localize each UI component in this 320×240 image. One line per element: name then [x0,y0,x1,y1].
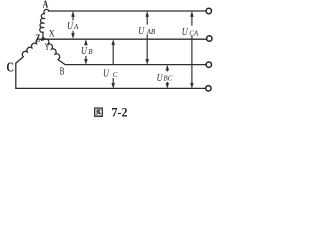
arrow U_A (between line A and line N) [72,12,75,39]
svg-text:CA: CA [189,29,199,37]
svg-text:C: C [113,71,118,79]
wire lead winding A to star point [42,32,44,39]
winding C (coil C-Z, star point to lower left) [22,39,41,57]
svg-text:AB: AB [146,28,156,36]
label U_A [67,20,79,32]
svg-text:X: X [49,30,55,40]
svg-text:C: C [6,60,14,75]
svg-text:B: B [88,48,93,56]
svg-text:7-2: 7-2 [112,105,128,119]
svg-text:U: U [67,20,74,32]
svg-text:U: U [182,26,189,38]
svg-text:A: A [43,0,49,11]
arrow U_CA (from line A across lines N and B to line C) [190,12,193,89]
terminal B [206,62,211,67]
wire line N (neutral from star point) [44,38,206,40]
label U_AB [138,25,156,37]
svg-text:BC: BC [163,75,172,83]
label U_B [81,45,93,57]
label U_C [103,68,118,80]
svg-text:U: U [81,45,88,57]
arrow U_B (between line N and line B) [84,40,87,64]
winding A (coil A-X) [40,9,49,32]
svg-text:Z: Z [35,33,40,44]
winding B (coil B-Y, star point to lower right) [44,39,60,60]
svg-text:U: U [138,25,145,37]
arrow U_C (from line N across line B to line C) [112,40,115,88]
caption character 图 [95,108,103,116]
node star point N (junction dot) [41,37,44,40]
wire line A (top phase line) [49,10,206,12]
svg-text:B: B [60,66,65,77]
svg-text:A: A [73,23,79,31]
label U_BC [157,72,173,84]
wire lead winding C to corner [16,57,23,64]
wire line B [65,64,206,66]
svg-text:U: U [103,68,110,80]
wire line C (bottom) [16,87,205,89]
arrow U_AB (from line A across line N to line B) [146,12,149,65]
terminal N [207,36,212,41]
label U_CA [182,26,199,38]
wire lead winding B to line B [58,60,65,65]
terminal A [206,8,211,13]
arrow U_BC (between line B and line C) [166,65,169,88]
svg-text:Y: Y [45,43,50,53]
wire vertical drop to line C [15,63,17,88]
svg-text:U: U [157,72,164,84]
terminal C [206,86,211,91]
